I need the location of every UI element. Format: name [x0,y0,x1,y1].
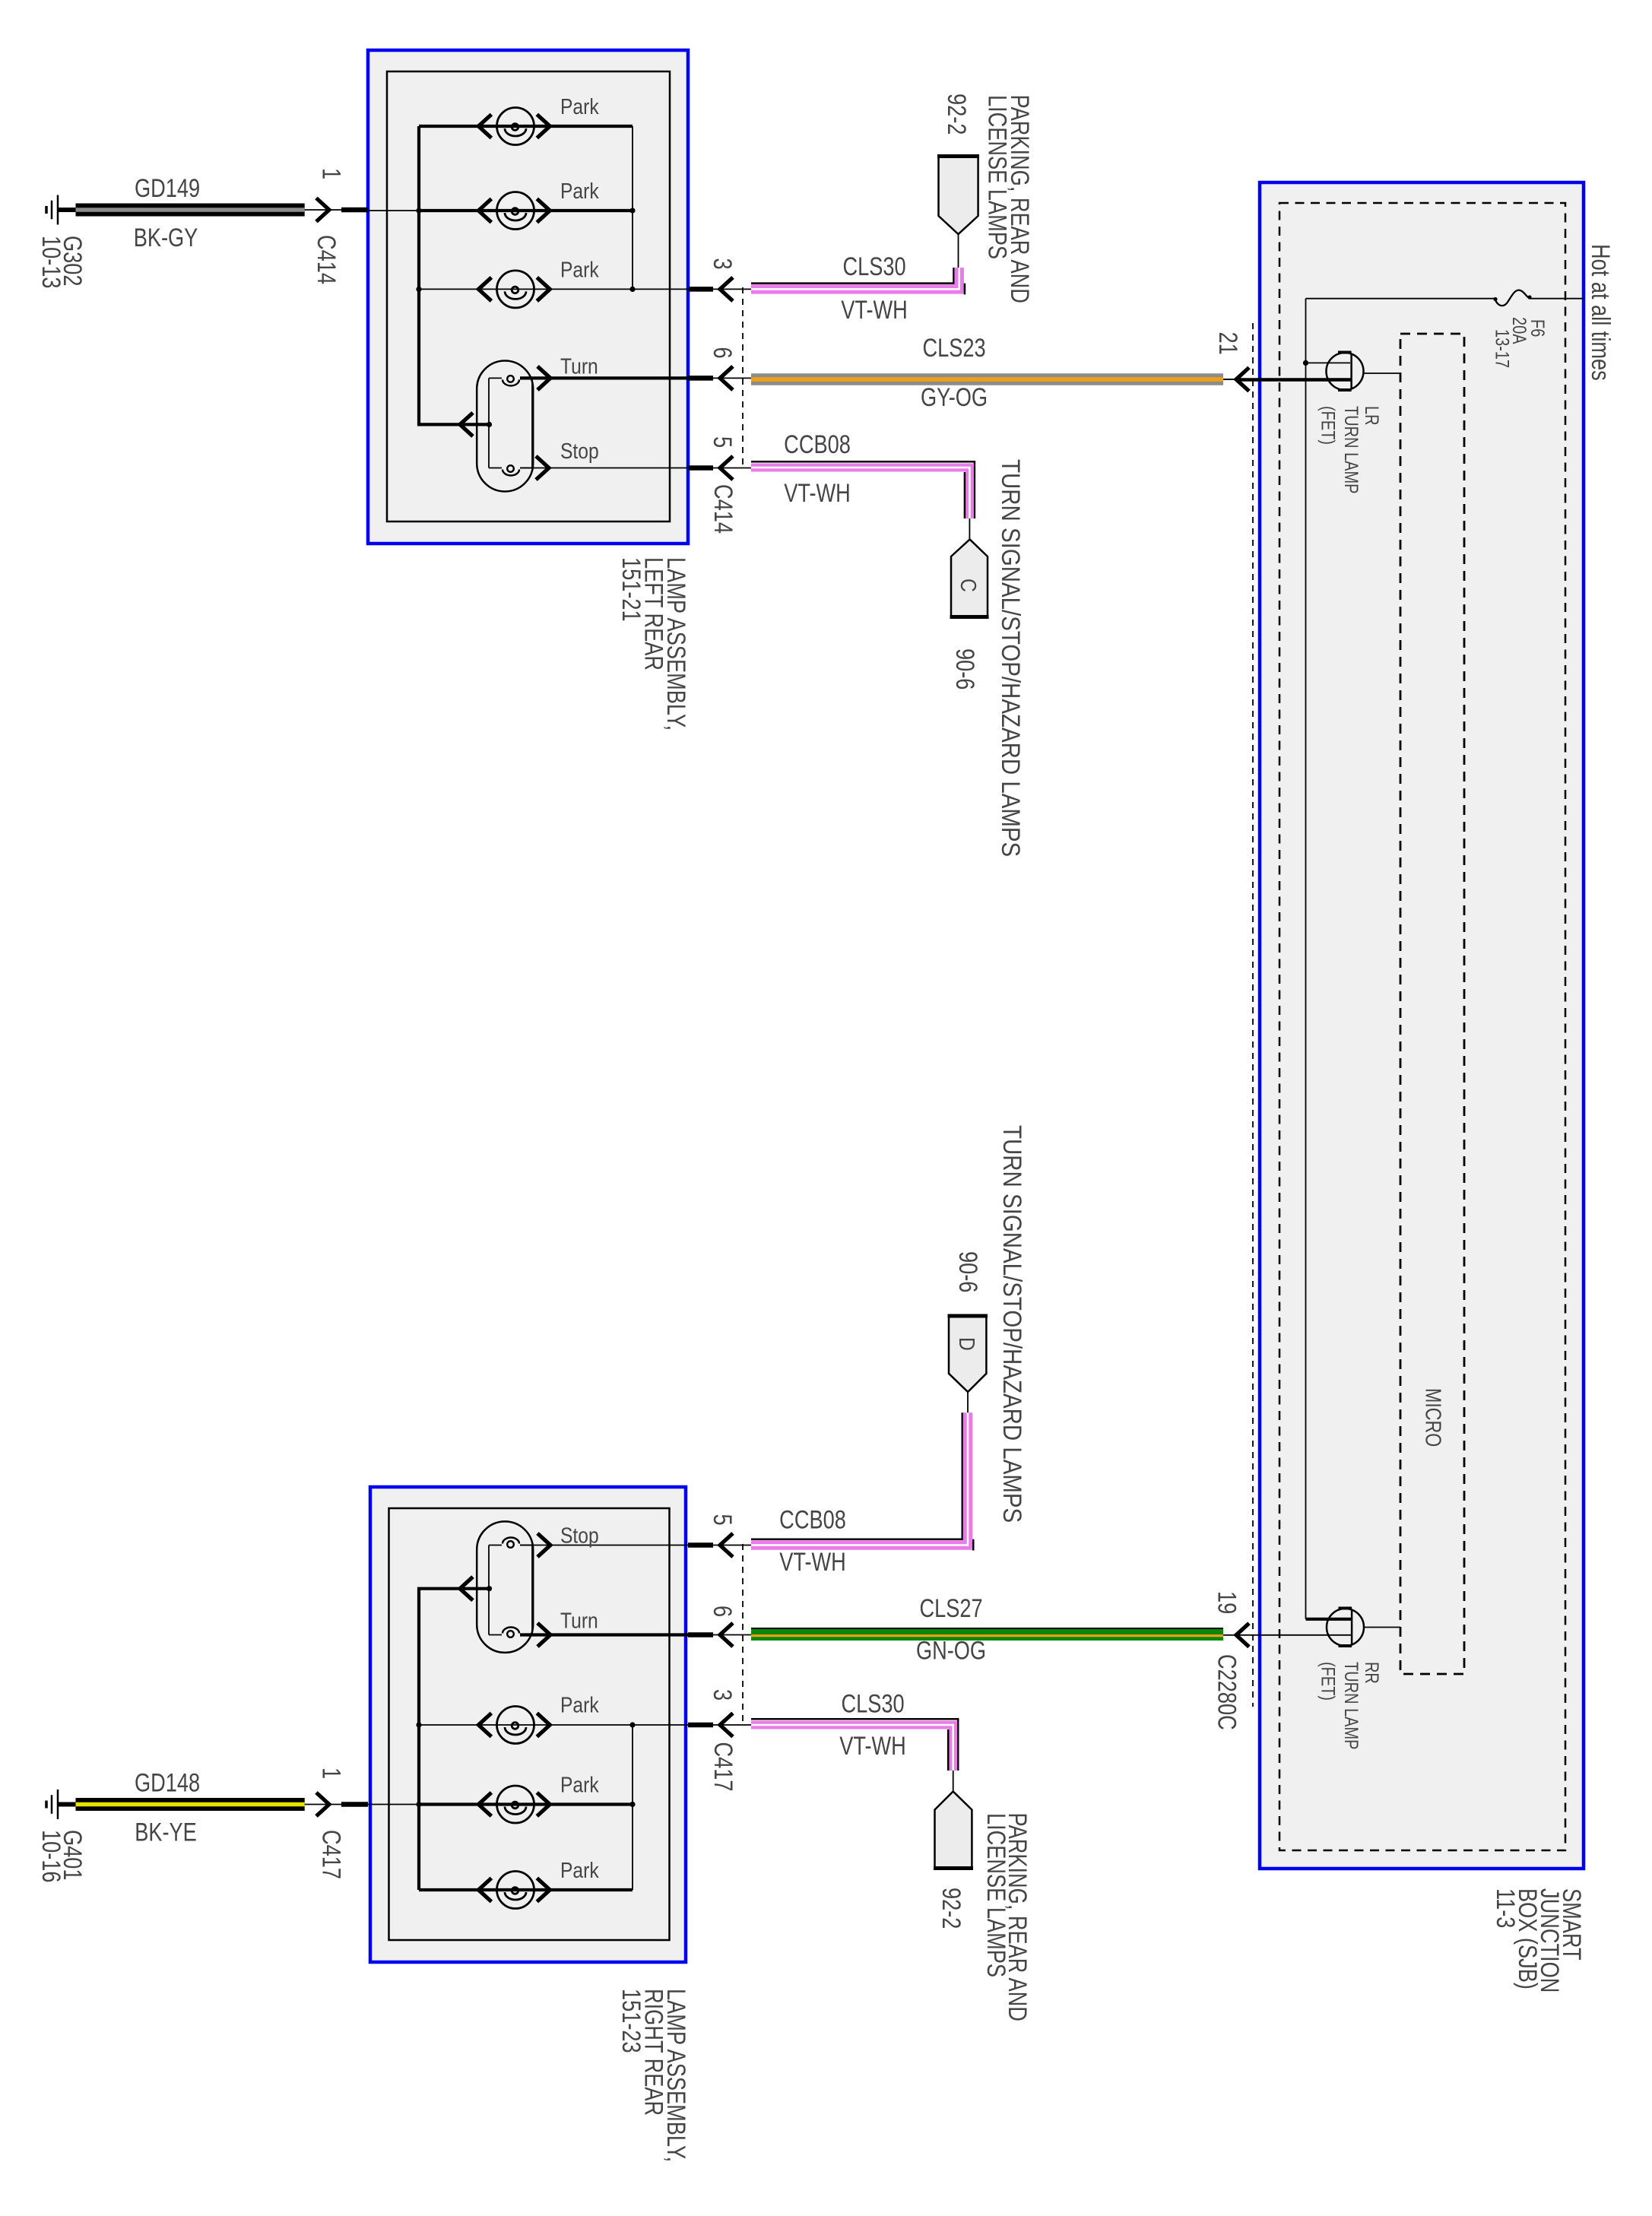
svg-text:C414: C414 [312,235,341,284]
svg-text:LICENSE LAMPS: LICENSE LAMPS [983,95,1013,259]
svg-text:13-17: 13-17 [1492,329,1513,368]
svg-text:Park: Park [560,179,599,203]
svg-text:90-6: 90-6 [950,648,980,690]
svg-text:GN-OG: GN-OG [916,1636,986,1666]
svg-text:Park: Park [560,1773,599,1797]
svg-text:CLS27: CLS27 [919,1593,982,1623]
svg-text:11-3: 11-3 [1491,1888,1520,1928]
svg-text:Stop: Stop [560,439,599,463]
svg-text:151-21: 151-21 [617,557,646,622]
svg-text:5: 5 [708,1514,737,1526]
svg-text:10-16: 10-16 [36,1830,66,1883]
svg-text:VT-WH: VT-WH [839,1731,906,1761]
svg-text:CLS23: CLS23 [922,333,985,363]
svg-text:TURN SIGNAL/STOP/HAZARD LAMPS: TURN SIGNAL/STOP/HAZARD LAMPS [997,1125,1027,1523]
svg-text:GY-OG: GY-OG [921,382,988,412]
svg-text:CCB08: CCB08 [779,1505,846,1535]
svg-text:92-2: 92-2 [942,94,972,135]
svg-text:CCB08: CCB08 [784,430,851,459]
svg-text:GD149: GD149 [135,173,200,203]
svg-text:LR: LR [1361,406,1382,426]
svg-text:VT-WH: VT-WH [784,478,851,508]
svg-text:1: 1 [317,1767,347,1779]
svg-text:GD148: GD148 [135,1768,200,1798]
svg-text:151-23: 151-23 [617,1989,646,2053]
svg-text:Turn: Turn [560,1609,598,1633]
svg-text:Park: Park [560,1858,599,1882]
svg-text:VT-WH: VT-WH [779,1547,846,1577]
svg-text:6: 6 [708,1606,737,1617]
svg-text:C417: C417 [709,1742,738,1792]
svg-text:D: D [955,1337,979,1351]
svg-text:10-13: 10-13 [36,236,66,289]
svg-text:3: 3 [708,1689,737,1701]
svg-text:92-2: 92-2 [937,1888,966,1929]
svg-text:MICRO: MICRO [1421,1388,1446,1447]
svg-text:CLS30: CLS30 [842,252,905,281]
svg-text:BK-GY: BK-GY [134,223,198,252]
svg-text:C414: C414 [709,484,738,534]
svg-text:(FET): (FET) [1317,1662,1339,1701]
svg-text:(FET): (FET) [1317,406,1339,445]
svg-text:TURN SIGNAL/STOP/HAZARD LAMPS: TURN SIGNAL/STOP/HAZARD LAMPS [996,459,1026,857]
svg-text:19: 19 [1213,1591,1242,1614]
svg-text:Hot at all times: Hot at all times [1586,244,1616,381]
svg-text:Park: Park [560,94,599,119]
svg-text:21: 21 [1213,332,1243,355]
svg-text:Park: Park [560,258,599,282]
svg-text:TURN LAMP: TURN LAMP [1340,406,1362,494]
svg-text:C417: C417 [317,1830,347,1879]
svg-text:6: 6 [708,347,737,359]
svg-text:Turn: Turn [560,354,598,379]
svg-text:90-6: 90-6 [953,1251,983,1292]
svg-text:1: 1 [317,168,347,179]
svg-text:VT-WH: VT-WH [841,295,908,325]
svg-text:TURN LAMP: TURN LAMP [1340,1662,1362,1750]
svg-text:3: 3 [708,258,737,270]
svg-text:RR: RR [1361,1662,1382,1684]
svg-text:CLS30: CLS30 [841,1689,904,1719]
svg-text:LICENSE LAMPS: LICENSE LAMPS [981,1813,1011,1977]
svg-text:BK-YE: BK-YE [135,1818,197,1847]
svg-text:Stop: Stop [560,1523,599,1548]
svg-text:C2280C: C2280C [1213,1654,1242,1730]
svg-text:C: C [956,579,981,592]
svg-text:5: 5 [708,436,737,448]
svg-text:Park: Park [560,1693,599,1717]
